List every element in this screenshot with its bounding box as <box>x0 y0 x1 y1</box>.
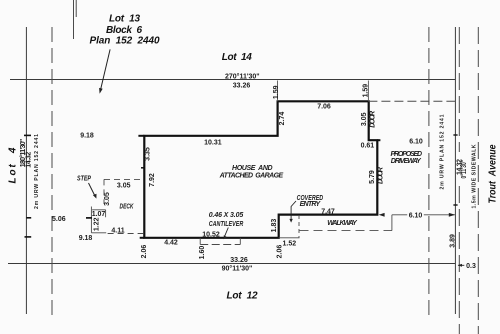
walkway east edge <box>391 215 393 231</box>
covered entry platform bottom edge <box>279 237 300 239</box>
svg-text:5.79: 5.79 <box>369 170 376 184</box>
svg-text:2.06: 2.06 <box>141 245 148 259</box>
svg-text:Block 6: Block 6 <box>106 25 142 36</box>
svg-text:0°11'30": 0°11'30" <box>460 160 468 179</box>
svg-text:1.83: 1.83 <box>271 219 278 233</box>
leader arrow from STEP <box>89 183 95 196</box>
svg-text:0.61: 0.61 <box>361 142 375 149</box>
sidewalk west dashed line <box>458 27 460 152</box>
ticks on east property line <box>453 134 457 136</box>
svg-text:1.22: 1.22 <box>93 217 100 231</box>
sidewalk east dashed line <box>477 27 479 334</box>
6.10 walkway dimension line <box>392 214 455 216</box>
svg-text:90°11'30": 90°11'30" <box>222 264 253 272</box>
svg-text:7.06: 7.06 <box>317 103 331 110</box>
svg-text:Lot 14: Lot 14 <box>222 52 252 63</box>
svg-text:0.46 X 3.05: 0.46 X 3.05 <box>209 212 244 219</box>
leader from COVERED ENTRY <box>291 201 296 220</box>
1.59 extension line right <box>367 81 369 102</box>
covered entry platform right dashed edge <box>298 215 300 238</box>
svg-text:7.47: 7.47 <box>321 208 335 215</box>
east property line <box>454 27 456 314</box>
svg-text:1.60: 1.60 <box>199 246 206 260</box>
svg-text:Plan 152 2440: Plan 152 2440 <box>90 36 160 47</box>
svg-text:ATTACHED GARAGE: ATTACHED GARAGE <box>219 173 284 180</box>
1.59 extension line left (garage to rear line) <box>277 81 279 102</box>
deck dashed top edge <box>104 178 143 180</box>
svg-text:3.05: 3.05 <box>104 192 111 206</box>
svg-text:6.10: 6.10 <box>409 212 423 219</box>
west property line <box>25 27 27 314</box>
svg-text:1.59: 1.59 <box>273 85 280 99</box>
svg-text:3.35: 3.35 <box>145 147 152 161</box>
bottom street line (front property line 90°11'30") <box>8 263 455 265</box>
west URW dashed line <box>51 27 53 318</box>
tick nub at house top-left corner <box>138 135 144 137</box>
0.3 dimension arrow <box>458 264 464 266</box>
leader arrow from CANTILEVER <box>225 228 229 237</box>
top street line (rear property line 270°11'30") <box>10 79 455 81</box>
svg-text:10.52: 10.52 <box>202 231 220 238</box>
svg-text:CANTILEVER: CANTILEVER <box>209 221 244 228</box>
svg-text:1.52: 1.52 <box>282 240 296 247</box>
tick nub at garage step corner <box>377 139 380 141</box>
svg-text:DOOR: DOOR <box>378 167 385 184</box>
svg-text:STEP: STEP <box>77 175 91 182</box>
deck bottom-left corner pieces (1.07 bracket) <box>92 210 106 218</box>
svg-text:HOUSE AND: HOUSE AND <box>232 165 272 172</box>
svg-text:4.42: 4.42 <box>164 239 178 246</box>
svg-text:Lot 13: Lot 13 <box>109 13 140 24</box>
proposed driveway dashed top edge <box>368 100 459 102</box>
cantilever dashed outline <box>200 238 240 245</box>
svg-text:DECK: DECK <box>120 204 135 211</box>
svg-text:ENTRY: ENTRY <box>300 201 322 208</box>
east URW dashed line <box>428 27 430 315</box>
svg-text:3.05: 3.05 <box>361 112 368 126</box>
svg-text:1.59: 1.59 <box>362 84 369 98</box>
6.10 arrowhead at east property line <box>449 213 455 217</box>
svg-text:2.74: 2.74 <box>279 112 286 126</box>
svg-text:WALKWAY: WALKWAY <box>327 220 358 227</box>
deck dashed left edge <box>103 179 105 204</box>
svg-text:0.3: 0.3 <box>466 263 476 270</box>
step outline <box>91 207 106 233</box>
svg-text:1.07: 1.07 <box>92 211 106 218</box>
svg-text:2m URW PLAN 152 2441: 2m URW PLAN 152 2441 <box>440 114 446 189</box>
svg-text:9.18: 9.18 <box>79 235 93 242</box>
svg-text:3.05: 3.05 <box>117 182 131 189</box>
lot 13/14 boundary double line top <box>73 0 75 39</box>
svg-text:7.92: 7.92 <box>149 173 156 187</box>
svg-text:DRIVEWAY: DRIVEWAY <box>391 158 422 165</box>
svg-text:Lot 4: Lot 4 <box>7 147 18 183</box>
svg-text:14.32: 14.32 <box>26 152 33 168</box>
bold tick for 1.22 dimension <box>86 217 92 219</box>
svg-text:DOOR: DOOR <box>369 111 376 128</box>
svg-text:4.11: 4.11 <box>111 227 124 234</box>
svg-text:2m URW PLAN 152 2441: 2m URW PLAN 152 2441 <box>34 134 40 209</box>
svg-text:PROPOSED: PROPOSED <box>391 151 423 158</box>
ticks on west property line <box>24 134 31 136</box>
svg-text:270°11'30": 270°11'30" <box>225 73 260 81</box>
svg-text:Trout Avenue: Trout Avenue <box>488 144 499 203</box>
svg-text:3.89: 3.89 <box>450 234 457 248</box>
deck dashed bottom edge <box>108 233 144 235</box>
leader arrow from Plan 152 2440 <box>101 49 111 89</box>
6.10 arrowhead at house corner (points left) <box>379 213 385 217</box>
svg-text:6.10: 6.10 <box>409 139 423 146</box>
svg-text:5.06: 5.06 <box>52 216 66 223</box>
tick on house left wall between 3.35 and 7.92 <box>141 167 145 169</box>
svg-text:2.06: 2.06 <box>277 245 284 259</box>
svg-text:9.18: 9.18 <box>80 133 94 140</box>
svg-text:10.31: 10.31 <box>204 139 222 146</box>
svg-text:33.26: 33.26 <box>233 83 251 90</box>
tick nub at house bottom-left corner <box>140 237 145 239</box>
svg-text:33.26: 33.26 <box>230 257 248 264</box>
svg-text:1.5m WIDE SIDEWALK: 1.5m WIDE SIDEWALK <box>472 144 478 208</box>
house and attached garage outline <box>144 101 377 238</box>
walkway bottom dashed edge <box>300 230 392 232</box>
svg-text:Lot 12: Lot 12 <box>227 290 258 301</box>
